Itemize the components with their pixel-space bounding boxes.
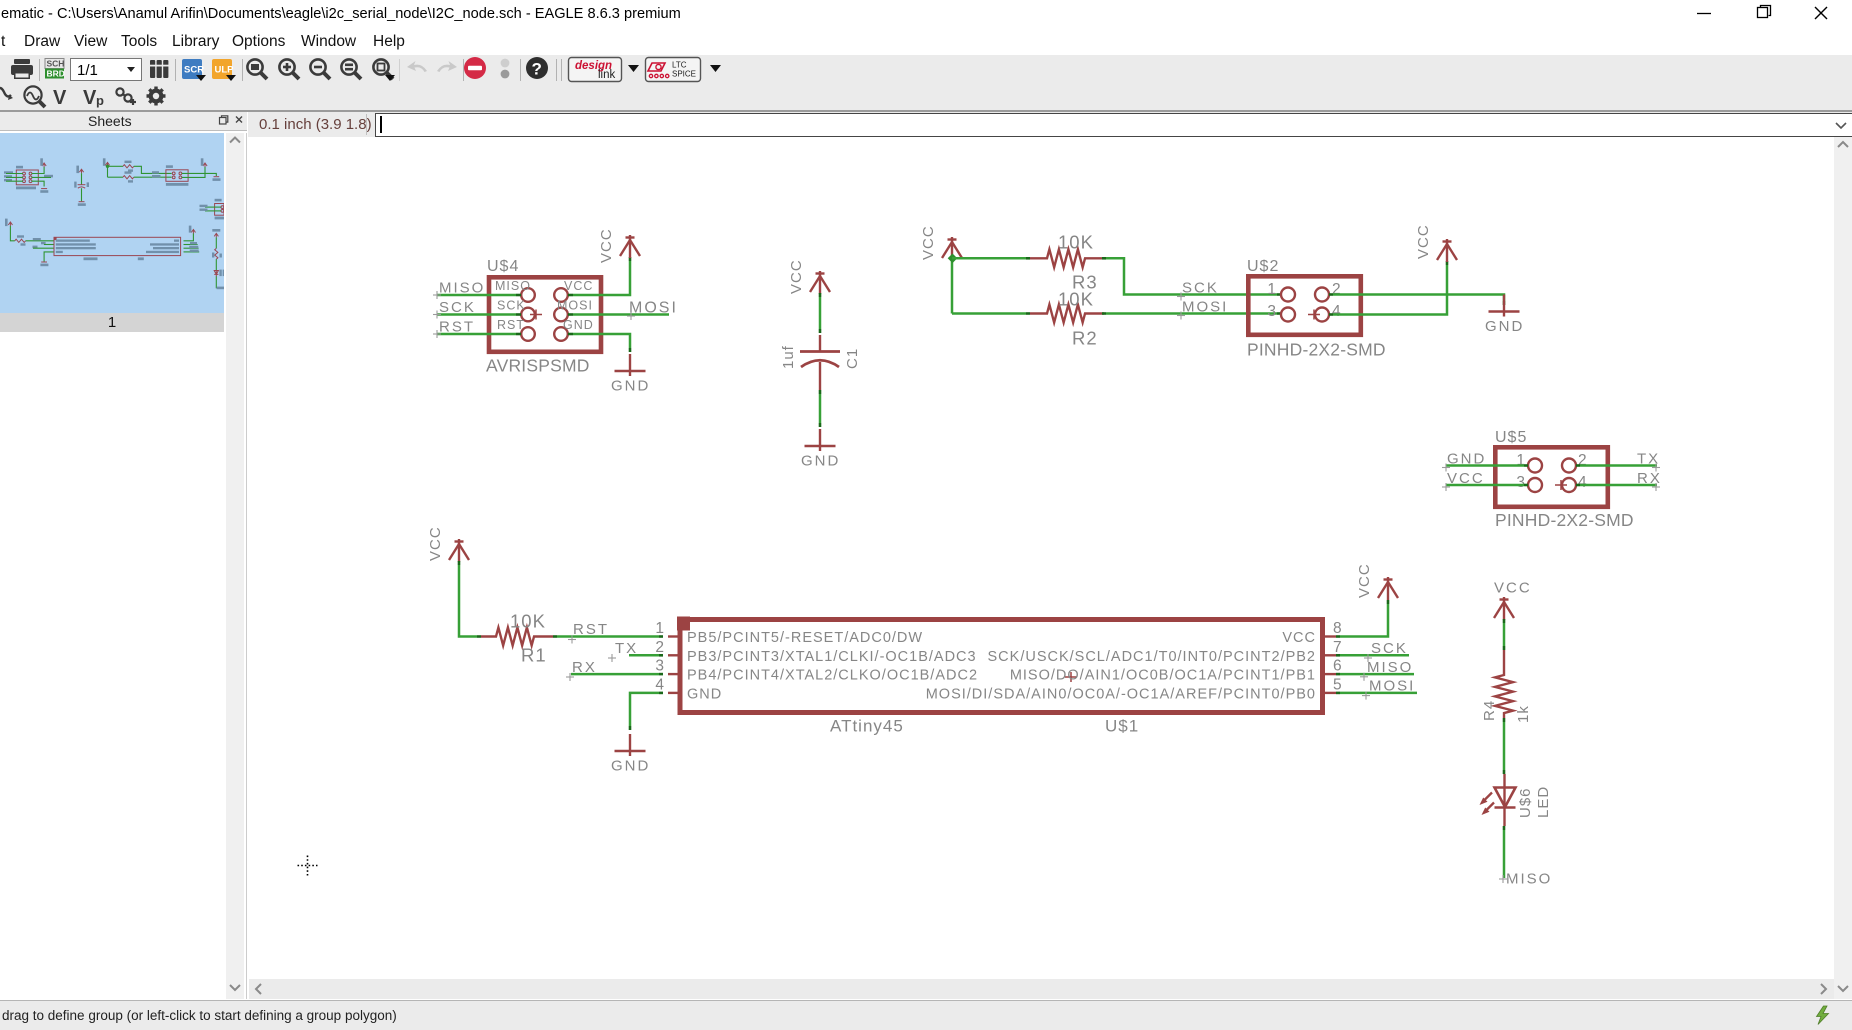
- net label TX at U$1: [608, 640, 638, 662]
- net label SCK: [433, 299, 476, 319]
- status bar: [0, 1000, 1852, 1030]
- net label VCC at U$5: [1442, 470, 1485, 491]
- zoom in icon: [279, 59, 299, 79]
- stop icon: [464, 57, 486, 79]
- U$5 pin numbers: [1516, 452, 1587, 491]
- svg-text:U$5: U$5: [1495, 429, 1527, 446]
- svg-text:1/1: 1/1: [77, 62, 98, 79]
- svg-text:RST: RST: [497, 318, 525, 332]
- svg-text:10K: 10K: [1058, 289, 1094, 310]
- wire net RX from U$5 pin 4: [1576, 484, 1657, 487]
- wire U$1 pin 4 to ground: [630, 693, 663, 730]
- U$1 pin stubs right: [1325, 637, 1336, 693]
- wire R2 row from junction: [952, 312, 1030, 315]
- svg-text:U$2: U$2: [1247, 258, 1279, 275]
- svg-text:C1: C1: [844, 348, 861, 369]
- connector U$5 (PINHD-2X2-SMD) body: [1495, 447, 1608, 507]
- net label GND at U$5: [1442, 451, 1486, 472]
- svg-text:4: 4: [1332, 303, 1342, 320]
- net label RX at U$1: [566, 659, 597, 681]
- svg-text:MOSI: MOSI: [1369, 678, 1415, 695]
- zoom fit icon: [247, 59, 267, 79]
- svg-text:MISO: MISO: [1367, 659, 1413, 676]
- close button: [1815, 7, 1827, 19]
- svg-text:R4: R4: [1481, 700, 1498, 721]
- VCC power symbol top middle: [942, 237, 962, 260]
- toolbar two rows: [0, 55, 1852, 112]
- svg-text:MISO: MISO: [439, 280, 485, 297]
- zoom redraw icon: [373, 59, 395, 81]
- net label MOSI at U$2: [1177, 299, 1228, 320]
- net label MISO at LED: [1499, 871, 1552, 888]
- VCC power symbol right: [1437, 239, 1457, 262]
- wire net MOSI from U$4: [568, 313, 669, 316]
- svg-text:GND: GND: [1485, 318, 1524, 335]
- svg-text:BRD: BRD: [47, 69, 65, 79]
- svg-text:U$4: U$4: [487, 258, 519, 275]
- schematic canvas: [249, 137, 1833, 978]
- svg-text:V: V: [83, 87, 97, 109]
- wire R4 to LED: [1503, 718, 1506, 774]
- svg-text:VCC: VCC: [788, 259, 805, 294]
- svg-text:MISO/DO/AIN1/OC0B/OC1A/PCINT1/: MISO/DO/AIN1/OC0B/OC1A/PCINT1/PB1: [1010, 668, 1316, 684]
- wire net SCK from U$1 pin 7: [1336, 654, 1409, 657]
- net label MISO at U$1: [1360, 659, 1413, 681]
- mouse crosshair cursor: [298, 856, 318, 876]
- svg-text:VCC: VCC: [1415, 224, 1432, 259]
- svg-text:7: 7: [1333, 639, 1343, 656]
- zoom select icon: [341, 59, 361, 79]
- svg-text:RX: RX: [572, 659, 597, 676]
- junction at VCC node: [948, 253, 958, 263]
- svg-text:VCC: VCC: [598, 228, 615, 263]
- wire VCC down to junction and R2 row: [951, 259, 954, 314]
- wire net MISO to U$4 pin 1: [437, 294, 521, 297]
- SCR icon: [182, 59, 206, 81]
- wire U$1 pin 8 to VCC: [1336, 600, 1388, 637]
- svg-text:link: link: [598, 69, 616, 81]
- svg-text:SCK: SCK: [439, 299, 476, 316]
- wire net VCC to U$5 pin 3: [1446, 484, 1528, 487]
- U$1 pin names left: [687, 630, 978, 702]
- svg-text:1k: 1k: [1515, 705, 1532, 723]
- svg-text:LED: LED: [1535, 786, 1552, 818]
- svg-text:VCC: VCC: [1282, 630, 1316, 646]
- svg-text:SCR: SCR: [184, 65, 204, 76]
- sheet thumbnail: U$5 connector: [200, 199, 225, 220]
- ground symbol below C1: [805, 429, 836, 451]
- print icon: [11, 59, 33, 79]
- svg-text:PB3/PCINT3/XTAL1/CLKI/-OC1B/AD: PB3/PCINT3/XTAL1/CLKI/-OC1B/ADC3: [687, 649, 977, 665]
- svg-text:1uf: 1uf: [780, 345, 797, 369]
- magnify wave icon: [24, 86, 45, 107]
- restore button: [1758, 8, 1768, 18]
- svg-text:MISO: MISO: [1506, 871, 1552, 888]
- grid icon: [149, 60, 169, 78]
- svg-text:SPICE: SPICE: [672, 70, 696, 79]
- wire net TX to U$1 pin 2: [629, 654, 663, 657]
- redo icon (disabled): [437, 61, 457, 72]
- svg-text:1: 1: [655, 620, 665, 637]
- ground symbol right of U$2: [1489, 295, 1520, 317]
- svg-text:GND: GND: [611, 758, 650, 775]
- svg-text:VCC: VCC: [1447, 470, 1485, 487]
- VCC power symbol left of R1: [449, 539, 469, 562]
- wire VCC to R4: [1503, 619, 1506, 650]
- svg-text:MOSI: MOSI: [1182, 299, 1228, 316]
- LED U$6 light arrows: [1480, 793, 1495, 816]
- svg-text:4: 4: [655, 676, 665, 693]
- resistor R1: [481, 628, 553, 646]
- U$1 pin numbers right 8-5: [1333, 620, 1343, 693]
- wire net RST to U$4 pin 3: [437, 333, 521, 336]
- svg-text:8: 8: [1333, 620, 1343, 637]
- ground symbol below U$4: [615, 354, 646, 376]
- svg-text:10K: 10K: [510, 611, 546, 632]
- ground symbol below U$1: [615, 734, 646, 756]
- svg-text:3: 3: [1267, 303, 1277, 320]
- busy dots icon: [501, 59, 510, 79]
- ULP icon: [212, 59, 236, 81]
- svg-text:VCC: VCC: [427, 526, 444, 561]
- IC U$1 ATtiny45 body: [677, 617, 1323, 713]
- svg-text:SCH: SCH: [47, 59, 65, 69]
- LTC SPICE button: [646, 58, 701, 82]
- net label RST at U$1: [568, 621, 609, 644]
- sheet thumbnail: R1 and VCC: [5, 219, 54, 267]
- U$1 pin numbers left 1-4: [655, 620, 665, 693]
- zoom out icon: [310, 59, 330, 79]
- svg-text:PINHD-2X2-SMD: PINHD-2X2-SMD: [1247, 340, 1386, 360]
- svg-text:U$6: U$6: [1517, 787, 1534, 818]
- net label MOSI: [627, 300, 678, 321]
- svg-text:TX: TX: [1637, 451, 1660, 468]
- capacitor C1: [800, 335, 840, 390]
- svg-text:p: p: [96, 93, 104, 108]
- net label MISO: [433, 280, 485, 300]
- svg-text:?: ?: [532, 60, 542, 79]
- SCH/BRD icon: [45, 59, 65, 79]
- wire U$2 pin 4 to VCC: [1329, 261, 1447, 315]
- svg-text:PB4/PCINT4/XTAL2/CLKO/OC1B/ADC: PB4/PCINT4/XTAL2/CLKO/OC1B/ADC2: [687, 668, 978, 684]
- net label TX at U$5: [1637, 451, 1660, 472]
- svg-text:GND: GND: [801, 453, 840, 470]
- svg-text:R1: R1: [521, 645, 547, 666]
- wire junction to R3: [952, 257, 1030, 260]
- svg-text:SCK: SCK: [497, 299, 526, 313]
- svg-text:MISO: MISO: [495, 279, 531, 293]
- svg-text:RX: RX: [1637, 470, 1662, 487]
- sheet thumbnail: U$4 connector: [4, 158, 53, 193]
- U$1 pin names right: [926, 630, 1316, 702]
- svg-text:ATtiny45: ATtiny45: [830, 717, 904, 736]
- svg-text:GND: GND: [1447, 451, 1486, 468]
- design link button: [569, 58, 622, 82]
- wire net MOSI from U$1 pin 5: [1336, 692, 1417, 695]
- sheet thumbnail: R4 and LED U$6: [212, 229, 225, 289]
- capacitor C1 vcc symbol: [810, 271, 830, 294]
- svg-text:AVRISPSMD: AVRISPSMD: [486, 356, 590, 376]
- svg-text:VCC: VCC: [1494, 580, 1532, 597]
- sheet combo 1/1: [71, 59, 142, 81]
- VCC power symbol above U$1 pin 8: [1378, 577, 1398, 600]
- svg-text:LTC: LTC: [672, 61, 687, 70]
- U$1 pin stubs left: [668, 637, 678, 693]
- connector U$2 (PINHD-2X2-SMD) body: [1248, 276, 1361, 335]
- svg-text:RST: RST: [439, 319, 475, 336]
- sheets panel header: [0, 112, 247, 131]
- svg-text:SCK/USCK/SCL/ADC1/T0/INT0/PCIN: SCK/USCK/SCL/ADC1/T0/INT0/PCINT2/PB2: [988, 649, 1317, 665]
- net label MOSI at U$1: [1362, 678, 1415, 700]
- command bar: [248, 112, 1852, 137]
- wire VCC to C1 top: [819, 293, 822, 333]
- svg-text:10K: 10K: [1058, 232, 1094, 253]
- svg-text:R2: R2: [1072, 328, 1098, 349]
- VCC power symbol above U$4: [620, 235, 640, 258]
- svg-text:3: 3: [655, 658, 665, 675]
- svg-text:ULP: ULP: [215, 65, 235, 76]
- U$4 pin names: [495, 279, 594, 332]
- gear icon: [147, 87, 166, 106]
- wire net TX from U$5 pin 2: [1576, 464, 1657, 467]
- sheet thumbnail: capacitor C1: [74, 166, 89, 206]
- wire R3 to U$2 pin 1: [1102, 258, 1281, 294]
- svg-text:V: V: [53, 87, 67, 109]
- sheet thumbnail: U$2 connector: [166, 158, 221, 186]
- resistor R3: [1030, 249, 1104, 267]
- menu bar: [0, 28, 1852, 55]
- minimize button: [1697, 13, 1711, 15]
- svg-text:PB5/PCINT5/-RESET/ADC0/DW: PB5/PCINT5/-RESET/ADC0/DW: [687, 630, 923, 646]
- resistor R4: [1495, 650, 1513, 718]
- svg-text:TX: TX: [615, 640, 638, 657]
- resistor R2: [1030, 305, 1104, 323]
- svg-text:GND: GND: [611, 378, 650, 395]
- wire net SCK to U$4 pin 2: [437, 313, 521, 316]
- LED U$6: [1495, 774, 1516, 826]
- net label RST: [433, 319, 475, 339]
- svg-text:5: 5: [1333, 676, 1343, 693]
- wire R2 to U$2 pin 3: [1102, 312, 1281, 315]
- svg-text:VCC: VCC: [920, 225, 937, 260]
- U$2 pin numbers: [1267, 281, 1341, 320]
- net label SCK at U$1: [1364, 640, 1408, 662]
- svg-text:GND: GND: [563, 318, 594, 332]
- svg-text:MOSI: MOSI: [557, 299, 593, 313]
- left panel with sheet thumbnail: [0, 133, 247, 999]
- net label SCK at U$2: [1177, 280, 1219, 301]
- svg-text:6: 6: [1333, 658, 1343, 675]
- net label RX at U$5: [1637, 470, 1662, 491]
- vertical scrollbar: [1834, 137, 1852, 999]
- svg-text:U$1: U$1: [1105, 717, 1139, 736]
- svg-text:RST: RST: [573, 621, 609, 638]
- sheet thumbnail: IC U$1 ATtiny45: [54, 226, 199, 261]
- wire net MISO from U$1 pin 6: [1336, 673, 1414, 676]
- VCC power symbol above R4: [1494, 597, 1514, 620]
- svg-text:3: 3: [1516, 474, 1526, 491]
- wire U$2 pin 2 to ground: [1329, 295, 1504, 306]
- svg-text:4: 4: [1578, 474, 1588, 491]
- wire U$4 GND pin to ground: [568, 334, 630, 352]
- svg-text:PINHD-2X2-SMD: PINHD-2X2-SMD: [1495, 510, 1634, 530]
- svg-text:VCC: VCC: [564, 279, 593, 293]
- help icon: [526, 57, 548, 79]
- sheet thumbnail: R3 R2 network: [103, 158, 172, 182]
- link-add icon: [116, 88, 136, 105]
- signal probe icon (clipped): [0, 88, 11, 96]
- wire C1 bottom to ground: [819, 390, 822, 427]
- wire R1 to U$1 pin 1 (RST): [553, 635, 663, 638]
- wire U$4 VCC pin to VCC symbol: [568, 257, 630, 295]
- svg-text:GND: GND: [687, 686, 722, 702]
- svg-text:SCK: SCK: [1182, 280, 1219, 297]
- undo icon (disabled): [407, 61, 427, 72]
- svg-text:MOSI/DI/SDA/AIN0/OC0A/-OC1A/AR: MOSI/DI/SDA/AIN0/OC0A/-OC1A/AREF/PCINT0/…: [926, 686, 1316, 702]
- svg-text:1: 1: [1267, 281, 1277, 298]
- wire LED to net MISO: [1503, 826, 1506, 878]
- svg-text:SCK: SCK: [1371, 640, 1408, 657]
- svg-text:VCC: VCC: [1356, 563, 1373, 598]
- wire net RX to U$1 pin 3: [571, 673, 663, 676]
- connector U$4 (AVRISPSMD) body: [489, 277, 601, 352]
- horizontal scrollbar: [249, 979, 1834, 999]
- wire VCC down to R1: [459, 561, 481, 637]
- svg-text:2: 2: [655, 639, 665, 656]
- svg-text:MOSI: MOSI: [629, 300, 678, 317]
- wire net GND to U$5 pin 1: [1446, 464, 1528, 467]
- window title bar: [0, 0, 1852, 28]
